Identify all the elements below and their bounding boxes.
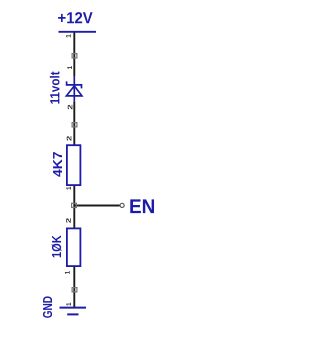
- svg-text:1: 1: [66, 186, 73, 190]
- svg-text:GND: GND: [40, 296, 55, 318]
- wire: +12V pin stub down to zener: [73, 32, 75, 76]
- zener diode pin stub: [73, 76, 75, 102]
- svg-text:1ØK: 1ØK: [49, 235, 64, 258]
- node square: zener / 4K7 junction: [72, 123, 77, 127]
- svg-text:1: 1: [66, 34, 73, 38]
- node square: +12V / zener junction: [72, 54, 77, 58]
- wire: 4K7 bottom through EN node to 10K top: [73, 186, 75, 229]
- svg-text:1: 1: [66, 302, 73, 306]
- svg-text:1: 1: [65, 271, 72, 275]
- svg-text:11volt: 11volt: [47, 71, 62, 105]
- svg-text:+12V: +12V: [57, 10, 93, 27]
- zener diode cathode bar with ticks: [67, 81, 82, 88]
- wire: zener bottom to 4K7 resistor top: [73, 102, 75, 146]
- ground symbol long bar: [60, 307, 87, 309]
- svg-text:4K7: 4K7: [50, 151, 65, 177]
- +12V supply bar: [59, 31, 97, 33]
- zener diode triangle: [66, 86, 82, 96]
- ground symbol short bar: [67, 313, 78, 315]
- resistor 4K7 body: [67, 145, 81, 185]
- svg-text:1: 1: [67, 66, 74, 70]
- svg-text:2: 2: [67, 104, 74, 110]
- svg-text:EN: EN: [129, 196, 155, 218]
- EN pin circle: [120, 203, 124, 207]
- node square: 10K / GND junction: [72, 288, 77, 292]
- wire: EN horizontal branch: [74, 205, 119, 207]
- node square: EN junction: [72, 203, 77, 207]
- svg-text:2: 2: [66, 135, 73, 141]
- wire: 10K bottom to GND: [73, 267, 75, 308]
- svg-text:2: 2: [66, 217, 73, 223]
- resistor 10K body: [67, 228, 81, 266]
